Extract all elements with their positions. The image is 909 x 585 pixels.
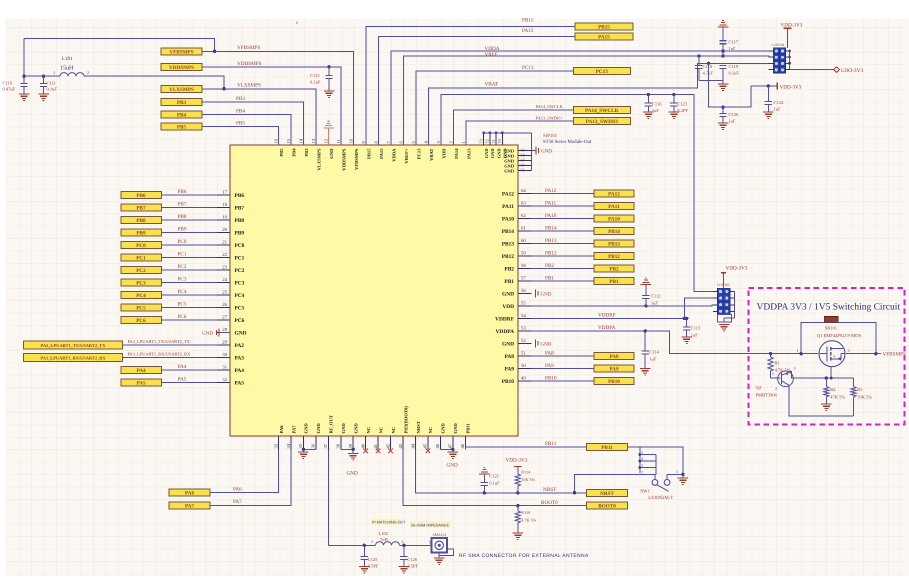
svg-text:PB5: PB5 xyxy=(177,125,187,131)
svg-text:PB6: PB6 xyxy=(178,189,187,195)
svg-text:VDD: VDD xyxy=(441,148,446,159)
svg-text:VDDRF: VDDRF xyxy=(598,313,616,319)
svg-text:VFBSMPS: VFBSMPS xyxy=(883,352,906,358)
svg-text:PA5: PA5 xyxy=(235,381,245,387)
svg-text:PA3: PA3 xyxy=(235,356,245,362)
svg-text:20: 20 xyxy=(222,227,227,233)
svg-text:73: 73 xyxy=(479,139,484,143)
svg-text:5: 5 xyxy=(641,451,643,455)
svg-text:3: 3 xyxy=(436,141,441,144)
svg-text:58: 58 xyxy=(521,263,526,269)
svg-text:PB4: PB4 xyxy=(291,148,296,157)
svg-text:PA5: PA5 xyxy=(178,377,187,383)
svg-text:C113: C113 xyxy=(691,326,701,331)
svg-text:PA10: PA10 xyxy=(502,216,514,222)
svg-text:NC: NC xyxy=(378,427,383,434)
svg-text:PB3: PB3 xyxy=(177,100,187,106)
svg-text:CON105: CON105 xyxy=(717,283,730,287)
svg-text:VDDSMPS: VDDSMPS xyxy=(169,65,194,71)
svg-text:1: 1 xyxy=(461,141,466,144)
svg-text:VDD: VDD xyxy=(502,304,514,310)
svg-text:R2: R2 xyxy=(830,387,835,392)
svg-text:PC2: PC2 xyxy=(136,268,146,274)
svg-text:2: 2 xyxy=(87,70,89,75)
svg-text:PA2: PA2 xyxy=(235,343,245,349)
svg-text:PA4: PA4 xyxy=(136,368,146,374)
svg-text:PA14: PA14 xyxy=(454,148,459,159)
svg-text:12: 12 xyxy=(323,138,328,143)
svg-text:R119: R119 xyxy=(521,510,530,515)
svg-text:PB12: PB12 xyxy=(608,254,620,260)
svg-text:8: 8 xyxy=(373,141,378,144)
svg-text:10: 10 xyxy=(348,138,353,143)
svg-text:C115: C115 xyxy=(310,73,320,78)
svg-text:4.7uF: 4.7uF xyxy=(703,71,714,76)
svg-text:GND: GND xyxy=(329,148,334,159)
svg-text:52: 52 xyxy=(521,338,526,344)
svg-text:72: 72 xyxy=(485,139,490,143)
svg-text:1uF: 1uF xyxy=(774,107,782,112)
svg-text:PB2: PB2 xyxy=(504,266,514,272)
svg-text:PA11: PA11 xyxy=(545,200,557,206)
svg-text:PA3_LPUART1_RX/USART2_RX: PA3_LPUART1_RX/USART2_RX xyxy=(128,352,192,357)
svg-text:PC2: PC2 xyxy=(178,264,187,270)
svg-text:PB14: PB14 xyxy=(545,225,557,231)
svg-text:56: 56 xyxy=(521,288,526,294)
svg-text:VFBSMPS: VFBSMPS xyxy=(354,148,359,170)
svg-text:PC3: PC3 xyxy=(178,277,187,283)
svg-text:70: 70 xyxy=(497,139,502,143)
svg-text:1uF: 1uF xyxy=(651,301,659,306)
svg-text:24: 24 xyxy=(222,277,227,283)
svg-text:23: 23 xyxy=(222,264,227,270)
svg-text:29: 29 xyxy=(222,339,227,345)
svg-text:PB5: PB5 xyxy=(279,148,284,157)
svg-text:59: 59 xyxy=(521,250,526,256)
svg-text:PC13: PC13 xyxy=(416,148,421,159)
svg-text:NC: NC xyxy=(428,427,433,434)
svg-text:PB7: PB7 xyxy=(178,202,187,208)
svg-text:33: 33 xyxy=(273,443,278,448)
svg-text:GND: GND xyxy=(304,423,309,434)
svg-text:GND: GND xyxy=(447,463,458,469)
svg-text:7: 7 xyxy=(386,141,391,144)
svg-text:1uF: 1uF xyxy=(652,108,660,113)
svg-text:2: 2 xyxy=(402,539,404,544)
svg-text:PA6: PA6 xyxy=(185,491,195,497)
svg-text:35: 35 xyxy=(298,443,303,448)
svg-text:63: 63 xyxy=(521,200,526,206)
svg-text:PA8: PA8 xyxy=(505,354,515,360)
svg-text:13: 13 xyxy=(311,138,316,143)
svg-text:GND: GND xyxy=(484,149,489,159)
svg-text:PB1: PB1 xyxy=(609,279,619,285)
svg-text:PA14_SWCLK: PA14_SWCLK xyxy=(536,104,564,109)
svg-text:GND: GND xyxy=(341,423,346,434)
svg-text:GND: GND xyxy=(202,331,213,337)
svg-text:2: 2 xyxy=(641,471,643,475)
svg-text:PC4: PC4 xyxy=(178,289,187,295)
svg-text:R1: R1 xyxy=(775,361,780,366)
svg-text:71: 71 xyxy=(491,139,496,143)
svg-text:PC0: PC0 xyxy=(136,243,146,249)
svg-text:1: 1 xyxy=(53,70,55,75)
svg-text:GND: GND xyxy=(354,423,359,434)
svg-text:Q1 EMF44P02J P-MOS: Q1 EMF44P02J P-MOS xyxy=(817,333,862,338)
svg-text:11: 11 xyxy=(336,138,341,143)
svg-text:VDDPA: VDDPA xyxy=(598,325,616,331)
svg-text:C118: C118 xyxy=(703,64,713,69)
svg-text:VLXSMPS: VLXSMPS xyxy=(237,83,261,89)
svg-text:PA15: PA15 xyxy=(522,28,534,34)
svg-text:PB11: PB11 xyxy=(466,423,471,434)
svg-text:NRST: NRST xyxy=(416,421,421,433)
svg-text:34: 34 xyxy=(286,443,291,448)
svg-text:2: 2 xyxy=(775,386,777,391)
svg-text:PH3(BOOT0): PH3(BOOT0) xyxy=(403,406,408,434)
svg-text:2: 2 xyxy=(448,141,453,144)
svg-text:54: 54 xyxy=(521,313,526,319)
svg-text:3.3PF: 3.3PF xyxy=(407,564,418,569)
svg-text:ST50 Series Module-Out: ST50 Series Module-Out xyxy=(543,139,592,145)
svg-text:BOOT0: BOOT0 xyxy=(598,504,616,510)
svg-text:50: 50 xyxy=(521,363,526,369)
svg-text:39: 39 xyxy=(348,443,353,448)
svg-text:PB8: PB8 xyxy=(178,214,187,220)
svg-text:GND: GND xyxy=(502,291,514,297)
svg-text:C119: C119 xyxy=(729,64,739,69)
svg-text:1uF: 1uF xyxy=(649,357,657,362)
svg-text:PB2: PB2 xyxy=(609,266,619,272)
svg-text:PB12: PB12 xyxy=(502,254,515,260)
svg-text:1: 1 xyxy=(676,470,678,474)
svg-text:19: 19 xyxy=(222,214,227,220)
svg-text:R3: R3 xyxy=(857,387,863,392)
svg-text:5: 5 xyxy=(411,141,416,144)
svg-text:0.1uF: 0.1uF xyxy=(310,80,321,85)
svg-text:47K 5%: 47K 5% xyxy=(830,395,845,400)
svg-text:40: 40 xyxy=(360,443,365,448)
svg-text:PMBT3906: PMBT3906 xyxy=(756,393,778,398)
svg-text:3: 3 xyxy=(848,348,850,353)
svg-text:22: 22 xyxy=(222,252,227,258)
svg-text:PA11: PA11 xyxy=(502,204,514,210)
svg-text:PA3_LPUART1_RX/USART2_RX: PA3_LPUART1_RX/USART2_RX xyxy=(40,355,106,360)
svg-text:PB3: PB3 xyxy=(236,96,245,102)
svg-text:PA9: PA9 xyxy=(505,366,515,372)
svg-text:C123: C123 xyxy=(677,102,688,107)
svg-text:37: 37 xyxy=(323,443,328,448)
svg-text:PI MATCHING CKT: PI MATCHING CKT xyxy=(372,521,406,525)
svg-text:43: 43 xyxy=(398,443,403,448)
svg-text:PA14_SWCLK: PA14_SWCLK xyxy=(585,108,619,114)
svg-text:VLXSMPS: VLXSMPS xyxy=(169,87,194,93)
svg-text:NC: NC xyxy=(391,427,396,434)
svg-text:C121: C121 xyxy=(489,474,499,479)
svg-text:PA10: PA10 xyxy=(545,213,557,219)
svg-text:C120: C120 xyxy=(729,112,740,117)
svg-text:PC6: PC6 xyxy=(178,314,187,320)
svg-text:PC6: PC6 xyxy=(136,318,146,324)
svg-text:47: 47 xyxy=(448,443,453,448)
svg-text:51: 51 xyxy=(521,350,526,356)
svg-text:42: 42 xyxy=(385,443,390,448)
svg-text:PB6: PB6 xyxy=(136,193,146,199)
svg-text:38: 38 xyxy=(336,443,341,448)
svg-text:C116: C116 xyxy=(652,102,662,107)
svg-text:PA12: PA12 xyxy=(502,191,514,197)
svg-text:0.5PF: 0.5PF xyxy=(368,564,379,569)
svg-text:VDDSMPS: VDDSMPS xyxy=(237,61,262,67)
svg-text:PA10: PA10 xyxy=(608,216,620,222)
svg-text:48: 48 xyxy=(460,443,465,448)
svg-text:15uH: 15uH xyxy=(60,66,74,72)
svg-text:14: 14 xyxy=(298,138,303,143)
svg-text:9: 9 xyxy=(361,141,366,144)
svg-text:PA13_SWDIO: PA13_SWDIO xyxy=(586,119,618,125)
svg-text:VFBSMPS: VFBSMPS xyxy=(237,45,260,51)
svg-text:PA8: PA8 xyxy=(609,354,619,360)
svg-text:PA6: PA6 xyxy=(233,487,242,493)
svg-text:GND: GND xyxy=(453,423,458,434)
svg-text:VREF: VREF xyxy=(485,52,498,58)
svg-text:55: 55 xyxy=(521,300,526,306)
svg-text:31: 31 xyxy=(222,364,227,370)
svg-text:45: 45 xyxy=(423,443,428,448)
svg-text:60: 60 xyxy=(521,238,526,244)
svg-text:VDDPA 3V3 / 1V5 Switching Circ: VDDPA 3V3 / 1V5 Switching Circuit xyxy=(757,303,901,313)
svg-text:PC1: PC1 xyxy=(178,252,187,258)
svg-text:PB4: PB4 xyxy=(177,112,187,118)
svg-text:4.7K 5%: 4.7K 5% xyxy=(521,518,536,523)
svg-text:PC5: PC5 xyxy=(235,306,245,312)
svg-text:57: 57 xyxy=(521,275,526,281)
svg-text:PA13_SWDIO: PA13_SWDIO xyxy=(536,115,562,120)
svg-text:R114: R114 xyxy=(521,470,531,475)
svg-text:VDDRF: VDDRF xyxy=(495,316,515,322)
svg-text:1: 1 xyxy=(429,541,431,545)
svg-text:PC6: PC6 xyxy=(235,318,245,324)
svg-text:PB15: PB15 xyxy=(598,25,610,31)
svg-text:0.1uF: 0.1uF xyxy=(47,87,58,92)
svg-text:VLXSMPS: VLXSMPS xyxy=(316,148,321,170)
svg-text:PB5: PB5 xyxy=(236,121,245,127)
svg-text:PC3: PC3 xyxy=(235,281,245,287)
svg-text:VFBSMPS: VFBSMPS xyxy=(169,49,193,55)
svg-text:L101: L101 xyxy=(62,56,73,62)
svg-text:PA11: PA11 xyxy=(608,204,620,210)
svg-text:BOOT0: BOOT0 xyxy=(541,500,558,506)
svg-text:PC5: PC5 xyxy=(178,302,187,308)
svg-text:PA2_LPUART1_TX/USART2_TX: PA2_LPUART1_TX/USART2_TX xyxy=(128,339,191,344)
svg-text:64: 64 xyxy=(521,188,526,194)
svg-text:GND: GND xyxy=(541,292,552,298)
svg-text:L102: L102 xyxy=(379,531,389,536)
svg-text:10K 5%: 10K 5% xyxy=(857,395,872,400)
svg-text:GND: GND xyxy=(441,423,446,434)
svg-text:PB14: PB14 xyxy=(502,229,515,235)
svg-text:CON104: CON104 xyxy=(772,43,785,47)
svg-text:RF_OUT: RF_OUT xyxy=(329,415,334,433)
svg-text:PA15: PA15 xyxy=(598,35,610,41)
svg-text:PC0: PC0 xyxy=(178,239,187,245)
svg-text:36: 36 xyxy=(311,443,316,448)
svg-text:GND: GND xyxy=(490,149,495,159)
svg-text:PC4: PC4 xyxy=(235,293,245,299)
svg-text:VDDPA: VDDPA xyxy=(496,329,515,335)
svg-text:GND: GND xyxy=(235,331,247,337)
svg-text:1: 1 xyxy=(772,371,774,376)
svg-text:NRST: NRST xyxy=(543,487,557,493)
svg-text:SW1: SW1 xyxy=(640,488,650,494)
svg-text:PB14: PB14 xyxy=(608,229,620,235)
svg-text:PC5: PC5 xyxy=(136,306,146,312)
svg-text:PA5: PA5 xyxy=(136,381,146,387)
svg-text:50-OHM IMPEDANCE: 50-OHM IMPEDANCE xyxy=(411,523,449,527)
svg-text:PB1: PB1 xyxy=(545,275,554,281)
svg-text:PC2: PC2 xyxy=(235,268,245,274)
svg-text:1uF: 1uF xyxy=(691,333,699,338)
svg-text:C112: C112 xyxy=(651,294,661,299)
svg-text:PB7: PB7 xyxy=(235,206,245,212)
svg-text:NRST: NRST xyxy=(600,491,614,497)
svg-text:PB3: PB3 xyxy=(304,148,309,157)
svg-text:NC: NC xyxy=(366,427,371,434)
svg-text:PC1: PC1 xyxy=(235,256,245,262)
svg-text:7nH: 7nH xyxy=(380,537,389,542)
svg-text:0.1uF: 0.1uF xyxy=(489,481,500,486)
svg-text:PC1: PC1 xyxy=(136,256,146,262)
svg-text:21: 21 xyxy=(222,239,227,245)
svg-text:PB6: PB6 xyxy=(235,193,245,199)
svg-text:GND: GND xyxy=(347,471,358,477)
svg-text:PB10: PB10 xyxy=(608,379,620,385)
svg-text:VBAT: VBAT xyxy=(485,82,499,88)
svg-text:C110: C110 xyxy=(3,81,13,86)
svg-text:RF SMA CONNECTOR FOR EXTERNAL: RF SMA CONNECTOR FOR EXTERNAL ANTENNA xyxy=(459,553,589,559)
svg-text:PB9: PB9 xyxy=(178,227,187,233)
svg-text:b: b xyxy=(834,355,836,359)
svg-text:PA12: PA12 xyxy=(545,188,557,194)
svg-text:PA15: PA15 xyxy=(379,148,384,159)
svg-text:PA9: PA9 xyxy=(609,366,619,372)
svg-text:C125: C125 xyxy=(368,557,379,562)
svg-text:C117: C117 xyxy=(729,40,739,45)
svg-text:VDD-3V3: VDD-3V3 xyxy=(506,458,528,464)
svg-text:C111: C111 xyxy=(47,81,56,86)
svg-text:PC0: PC0 xyxy=(235,243,245,249)
svg-text:65: 65 xyxy=(521,168,525,173)
svg-text:PA7: PA7 xyxy=(185,503,195,509)
svg-text:GND: GND xyxy=(316,423,321,434)
svg-text:PB10: PB10 xyxy=(502,379,515,385)
svg-text:GND: GND xyxy=(541,342,552,348)
svg-text:VDD-3V3: VDD-3V3 xyxy=(780,84,802,90)
svg-text:GND: GND xyxy=(504,169,514,174)
svg-text:GND: GND xyxy=(502,341,514,347)
svg-text:SB101: SB101 xyxy=(825,325,837,330)
svg-text:18: 18 xyxy=(222,202,227,208)
svg-text:44: 44 xyxy=(410,443,415,448)
svg-text:PB11: PB11 xyxy=(601,445,613,451)
svg-text:C126: C126 xyxy=(407,557,418,562)
svg-text:61: 61 xyxy=(521,225,526,231)
svg-text:32: 32 xyxy=(222,377,227,383)
svg-text:PB2: PB2 xyxy=(545,263,554,269)
svg-text:16: 16 xyxy=(273,138,278,143)
svg-text:0.47uF: 0.47uF xyxy=(3,87,16,92)
svg-text:VDDSMPS: VDDSMPS xyxy=(341,148,346,171)
svg-text:LS18N2M-T: LS18N2M-T xyxy=(648,495,673,501)
svg-text:62: 62 xyxy=(521,213,526,219)
svg-text:46: 46 xyxy=(435,443,440,448)
svg-text:PB15: PB15 xyxy=(522,17,534,23)
svg-text:PA7: PA7 xyxy=(291,425,296,434)
svg-text:PC4: PC4 xyxy=(136,293,146,299)
svg-text:3: 3 xyxy=(794,366,796,371)
svg-text:15: 15 xyxy=(286,138,291,143)
svg-text:4: 4 xyxy=(423,141,428,144)
svg-text:1uF: 1uF xyxy=(729,46,737,51)
svg-text:3: 3 xyxy=(641,464,643,468)
svg-text:53: 53 xyxy=(521,325,526,331)
svg-text:PA8: PA8 xyxy=(545,350,554,356)
svg-text:PB11: PB11 xyxy=(545,441,557,447)
svg-text:6: 6 xyxy=(398,141,403,144)
svg-text:Q2: Q2 xyxy=(756,385,762,390)
svg-text:PA2_LPUART1_TX/USART2_TX: PA2_LPUART1_TX/USART2_TX xyxy=(41,343,107,348)
svg-text:VDD-3V3: VDD-3V3 xyxy=(781,22,803,28)
svg-text:PC13: PC13 xyxy=(522,65,534,71)
svg-text:PA13: PA13 xyxy=(466,148,471,159)
svg-text:PB9: PB9 xyxy=(235,231,245,237)
svg-text:49: 49 xyxy=(521,375,526,381)
svg-text:PB13: PB13 xyxy=(545,238,557,244)
svg-text:1: 1 xyxy=(797,348,799,353)
svg-text:PB15: PB15 xyxy=(366,148,371,159)
svg-text:27: 27 xyxy=(222,314,227,320)
svg-text:PA7: PA7 xyxy=(233,499,242,505)
svg-text:PB8: PB8 xyxy=(235,218,245,224)
svg-text:25: 25 xyxy=(222,289,227,295)
svg-text:4: 4 xyxy=(641,457,643,461)
svg-text:PB13: PB13 xyxy=(608,241,620,247)
svg-text:PB1: PB1 xyxy=(504,279,514,285)
svg-text:41: 41 xyxy=(373,443,378,448)
svg-text:30: 30 xyxy=(222,352,227,358)
svg-text:LDO-3V3: LDO-3V3 xyxy=(841,68,863,74)
svg-text:SMA101: SMA101 xyxy=(433,533,447,537)
svg-text:PB9: PB9 xyxy=(136,231,146,237)
svg-text:VBAT: VBAT xyxy=(429,149,434,161)
svg-text:PB8: PB8 xyxy=(136,218,146,224)
svg-text:PA4: PA4 xyxy=(235,368,245,374)
svg-text:PB4: PB4 xyxy=(236,108,245,114)
svg-text:PA4: PA4 xyxy=(178,364,187,370)
svg-text:PB10: PB10 xyxy=(545,375,557,381)
svg-text:VDDA: VDDA xyxy=(391,148,396,162)
svg-text:C114: C114 xyxy=(649,350,659,355)
svg-text:PA6: PA6 xyxy=(279,425,284,434)
svg-text:PC3: PC3 xyxy=(136,281,146,287)
svg-text:VREF+: VREF+ xyxy=(404,148,409,164)
svg-text:C124: C124 xyxy=(774,100,785,105)
svg-text:8.2PF: 8.2PF xyxy=(677,108,688,113)
svg-text:VDD-3V3: VDD-3V3 xyxy=(726,265,748,271)
svg-text:1: 1 xyxy=(371,539,373,544)
svg-text:PA9: PA9 xyxy=(545,363,554,369)
svg-text:PA12: PA12 xyxy=(608,191,620,197)
